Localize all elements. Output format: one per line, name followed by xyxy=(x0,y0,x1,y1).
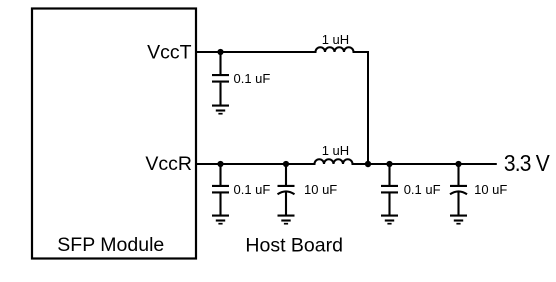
svg-text:1 uH: 1 uH xyxy=(322,32,349,47)
svg-text:1 uH: 1 uH xyxy=(322,143,349,158)
svg-text:0.1 uF: 0.1 uF xyxy=(234,71,271,86)
svg-text:SFP Module: SFP Module xyxy=(57,234,164,256)
svg-text:10 uF: 10 uF xyxy=(474,182,507,197)
svg-text:0.1 uF: 0.1 uF xyxy=(234,182,271,197)
svg-text:VccR: VccR xyxy=(145,153,192,175)
svg-text:Host Board: Host Board xyxy=(245,235,343,257)
svg-text:10 uF: 10 uF xyxy=(304,182,337,197)
svg-text:3.3 V: 3.3 V xyxy=(504,150,550,176)
svg-text:0.1 uF: 0.1 uF xyxy=(404,182,441,197)
svg-text:VccT: VccT xyxy=(147,41,192,63)
